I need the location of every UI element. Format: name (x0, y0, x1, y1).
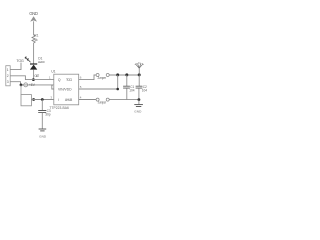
jumper J1 pad A (96, 74, 99, 77)
junction dot rail riser (116, 73, 119, 76)
wire GND drop (138, 100, 140, 105)
svg-text:OUT: OUT (34, 74, 39, 78)
power flag arrow (30, 16, 37, 21)
wire connector pin3 to +5V net (10, 82, 54, 89)
ground GND1 bars (39, 129, 47, 131)
wire +5V branch down to touch pad (20, 85, 22, 95)
svg-text:104: 104 (142, 89, 148, 93)
junction dot GND rail C2 (138, 98, 141, 101)
wire C2 bottom lead (138, 88, 140, 99)
wire C2 top lead (138, 75, 140, 86)
svg-text:Jumper: Jumper (97, 76, 106, 80)
svg-text:3: 3 (7, 80, 9, 84)
wire TOG pin to jumper J1 (79, 75, 96, 80)
jumper J1 pad B (106, 74, 109, 77)
svg-text:AHLB: AHLB (65, 98, 73, 102)
junction dot LED / OUT (32, 78, 35, 81)
junction dot rail C2 (138, 73, 141, 76)
svg-text:VIN/VDD: VIN/VDD (58, 88, 72, 92)
capacitor C1 plates (123, 86, 130, 88)
jumper J2 pad B (106, 98, 109, 101)
touch pad electrode (21, 95, 31, 106)
LED D1 emission arrows (25, 57, 30, 62)
LED D1 triangle (30, 65, 37, 70)
wire connector pin1 to TOG (10, 63, 21, 70)
wire AHLB pin to jumper J2 (79, 99, 96, 101)
junction dot pad corner (32, 98, 35, 101)
resistor R1 (32, 35, 35, 43)
ground GND2 bars (134, 105, 143, 107)
capacitor C3 plates (38, 111, 46, 113)
wire touch pad to I pin (31, 99, 53, 101)
wire R1 to LED D1 (33, 43, 35, 64)
svg-text:U1: U1 (51, 70, 55, 74)
svg-text:GND: GND (134, 109, 142, 113)
wire LED to OUT net (33, 70, 35, 80)
LED D1 cathode bar (30, 63, 37, 65)
svg-text:104: 104 (129, 89, 135, 93)
junction dot C3 tap (41, 98, 44, 101)
junction dot rail C1 (125, 73, 128, 76)
connector P1 body (6, 66, 10, 86)
wire jumper J2 to GND rail (109, 99, 138, 101)
capacitor C2 plates (136, 86, 143, 88)
svg-text:LED0: LED0 (38, 60, 45, 64)
svg-text:30p: 30p (45, 113, 51, 117)
svg-text:GND: GND (29, 11, 38, 16)
power port crow foot top right (135, 63, 144, 75)
svg-text:TOG: TOG (16, 59, 24, 63)
wire flag to R1 (33, 21, 35, 35)
svg-text:2: 2 (7, 74, 9, 78)
svg-text:TTP223-BA6: TTP223-BA6 (49, 106, 69, 110)
wire connector pin2 to OUT net (10, 76, 54, 80)
jumper J2 pad A (96, 98, 99, 101)
svg-text:+5V: +5V (29, 83, 36, 87)
wire VDD riser (117, 75, 119, 89)
power port circle +5V (24, 83, 28, 87)
svg-text:R1: R1 (34, 34, 38, 38)
svg-text:TOG: TOG (66, 78, 73, 82)
svg-text:1: 1 (7, 68, 9, 72)
wire C3 top lead (41, 100, 43, 111)
wire C1 top lead (126, 75, 128, 86)
junction dot +5V / pad branch (20, 84, 23, 87)
wire C1 bottom lead (126, 88, 128, 99)
wire VDD pin to riser (79, 88, 118, 90)
svg-text:GND: GND (39, 134, 47, 138)
wire C3 bottom lead (41, 113, 43, 129)
svg-text:I: I (58, 98, 59, 102)
svg-text:Q: Q (58, 78, 61, 82)
svg-text:Jumper: Jumper (98, 100, 107, 104)
svg-text:1k: 1k (34, 38, 38, 42)
junction dot VDD wire end (116, 88, 119, 91)
wire jumper J1 to VDD rail (109, 74, 139, 76)
IC U1 body TTP223 (54, 74, 79, 105)
